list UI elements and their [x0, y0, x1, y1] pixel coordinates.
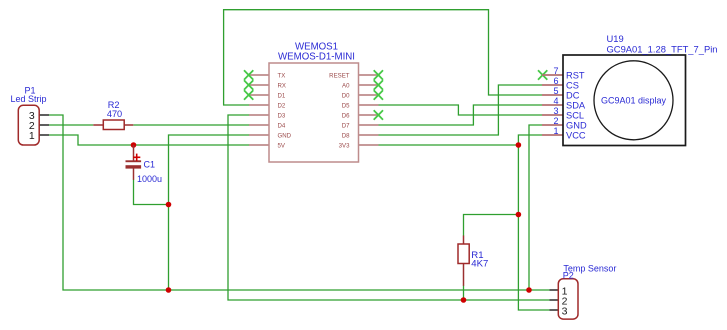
svg-text:2: 2: [553, 116, 558, 126]
wire net R2 right to D4: [133, 124, 250, 126]
no-connect X on D0: [374, 90, 383, 99]
svg-text:D3: D3: [278, 112, 286, 119]
svg-text:D6: D6: [342, 112, 350, 119]
svg-text:4: 4: [553, 96, 558, 106]
C1 polarity plus sign: [133, 156, 140, 158]
junction C1 bottom on GND vertical: [166, 202, 172, 208]
no-connect X on RX: [244, 80, 253, 89]
wire net D2 to DC (top loop): [224, 10, 542, 105]
svg-text:WEMOS-D1-MINI: WEMOS-D1-MINI: [278, 52, 355, 63]
no-connect X on RESET: [374, 70, 383, 79]
svg-text:470: 470: [107, 109, 122, 119]
svg-text:VCC: VCC: [566, 130, 586, 140]
wire net R1 top branch: [464, 215, 519, 236]
junction R1 branch on VCC vertical: [516, 212, 522, 218]
svg-text:4K7: 4K7: [471, 258, 488, 269]
svg-text:D7: D7: [342, 122, 350, 129]
svg-text:1: 1: [553, 126, 558, 136]
svg-text:Led Strip: Led Strip: [10, 94, 46, 104]
svg-text:GND: GND: [566, 120, 587, 130]
wire net D8 to CS: [379, 85, 543, 135]
svg-text:RST: RST: [566, 70, 585, 80]
svg-text:SCL: SCL: [566, 110, 584, 120]
svg-text:D0: D0: [342, 92, 350, 99]
svg-text:D8: D8: [342, 132, 350, 139]
resistor R1 4K7: [458, 236, 488, 286]
wire net display GND pin2 down to rail: [529, 125, 542, 290]
svg-text:A0: A0: [342, 82, 350, 89]
no-connect X on TX: [244, 70, 253, 79]
svg-text:RESET: RESET: [329, 72, 350, 79]
wire net D3 to P2.2: [228, 115, 550, 300]
svg-text:5V: 5V: [278, 142, 286, 149]
svg-text:D5: D5: [342, 102, 350, 109]
display U19 GC9A01: [542, 33, 718, 146]
svg-text:D1: D1: [278, 92, 286, 99]
wire net D5 to SCL: [379, 105, 543, 115]
junction 3V3 on VCC vertical: [516, 142, 522, 148]
svg-text:7: 7: [553, 66, 558, 76]
svg-text:GC9A01_1.28_TFT_7_Pin: GC9A01_1.28_TFT_7_Pin: [607, 43, 718, 54]
svg-text:GC9A01 display: GC9A01 display: [601, 95, 667, 105]
svg-text:DC: DC: [566, 90, 580, 100]
svg-text:D4: D4: [278, 122, 286, 129]
no-connect X on D1: [244, 90, 253, 99]
connector P1 Led Strip: [10, 86, 49, 146]
svg-text:3: 3: [553, 106, 558, 116]
svg-text:1: 1: [29, 130, 35, 142]
wire net VCC pin1 down to P2.3: [518, 135, 549, 310]
svg-text:TX: TX: [278, 72, 286, 79]
svg-text:GND: GND: [278, 132, 292, 139]
svg-text:CS: CS: [566, 80, 579, 90]
svg-text:1000u: 1000u: [137, 174, 162, 184]
junction R1 bottom on D3 rail: [461, 297, 467, 303]
svg-text:D2: D2: [278, 102, 286, 109]
svg-text:6: 6: [553, 76, 558, 86]
wire net D7 to SDA: [379, 105, 543, 125]
junction display GND on GND rail: [526, 287, 532, 293]
wire net GND rail P1.3 down and across: [49, 115, 550, 290]
svg-text:C1: C1: [144, 160, 156, 170]
no-connect X on D6: [374, 110, 383, 119]
capacitor C1 1000u polarized: [126, 145, 163, 184]
svg-text:RX: RX: [278, 82, 286, 89]
wire net C1 bottom to GND vertical: [134, 180, 169, 205]
no-connect X on A0: [374, 80, 383, 89]
resistor R2 470: [93, 100, 133, 130]
no-connect X on RST: [538, 70, 547, 79]
svg-text:P2: P2: [563, 271, 574, 281]
svg-text:SDA: SDA: [566, 100, 586, 110]
junction C1 top on 5V line: [131, 142, 137, 148]
wire net P1.1 to 5V: [49, 135, 250, 145]
connector P2 Temp Sensor: [550, 264, 617, 320]
module WEMOS1 WEMOS-D1-MINI: [249, 42, 379, 163]
svg-text:5: 5: [553, 86, 558, 96]
svg-text:3V3: 3V3: [339, 142, 350, 149]
svg-text:3: 3: [562, 305, 568, 317]
wire net P1.2 to R2 left: [49, 124, 93, 126]
wire net WEMOS GND branch down to C1 bottom and rail: [169, 135, 251, 290]
display round face: [594, 61, 673, 140]
junction GND vertical on GND rail: [166, 287, 172, 293]
wire net 3V3 to VCC vertical: [379, 144, 519, 146]
wire net R1 bottom to D3 rail: [463, 286, 465, 301]
